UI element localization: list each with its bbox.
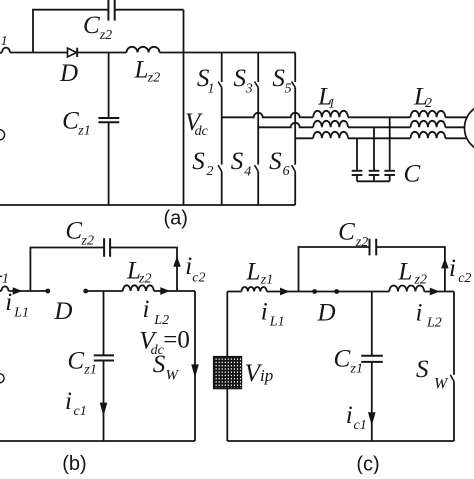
svg-text:z1: z1 — [260, 273, 273, 288]
svg-text:L2: L2 — [426, 316, 442, 331]
svg-text:(c): (c) — [356, 454, 379, 475]
svg-text:z1: z1 — [83, 362, 96, 377]
svg-text:z2: z2 — [81, 234, 94, 249]
svg-text:i: i — [185, 253, 192, 280]
svg-text:z2: z2 — [138, 272, 151, 287]
svg-text:L: L — [246, 259, 261, 286]
svg-text:C: C — [334, 346, 351, 373]
svg-text:S: S — [416, 356, 429, 383]
svg-text:S: S — [153, 351, 166, 378]
svg-text:D: D — [59, 60, 78, 87]
svg-text:S: S — [234, 65, 247, 92]
svg-text:1: 1 — [1, 34, 8, 49]
svg-text:S: S — [269, 148, 282, 175]
svg-text:D: D — [53, 298, 72, 325]
svg-text:5: 5 — [285, 81, 292, 96]
svg-text:i: i — [449, 255, 456, 282]
svg-text:L: L — [134, 57, 149, 84]
svg-text:c2: c2 — [458, 271, 471, 286]
svg-text:4: 4 — [244, 164, 251, 179]
svg-text:L: L — [397, 259, 412, 286]
svg-text:2: 2 — [425, 96, 432, 111]
svg-text:ip: ip — [260, 366, 273, 385]
svg-text:C: C — [67, 347, 84, 374]
svg-text:c1: c1 — [74, 404, 87, 419]
svg-text:=0: =0 — [163, 326, 190, 353]
svg-text:i: i — [416, 300, 423, 327]
svg-text:L1: L1 — [13, 306, 29, 321]
svg-text:dc: dc — [195, 124, 209, 139]
svg-text:z2: z2 — [99, 28, 112, 43]
svg-text:L1: L1 — [269, 315, 285, 330]
svg-text:C: C — [83, 12, 100, 39]
svg-text:i: i — [5, 289, 12, 316]
svg-text:2: 2 — [207, 164, 214, 179]
svg-text:z2: z2 — [355, 235, 368, 250]
svg-text:6: 6 — [283, 164, 290, 179]
svg-text:S: S — [192, 148, 205, 175]
svg-text:C: C — [404, 160, 421, 187]
svg-text:z2: z2 — [414, 273, 427, 288]
svg-text:C: C — [65, 218, 82, 245]
svg-text:W: W — [166, 368, 180, 384]
svg-text:c1: c1 — [354, 418, 367, 433]
svg-text:(a): (a) — [164, 208, 188, 230]
svg-text:W: W — [434, 376, 449, 393]
svg-text:c2: c2 — [192, 271, 205, 286]
svg-text:z1: z1 — [350, 362, 363, 377]
svg-text:i: i — [261, 299, 268, 326]
svg-text:1: 1 — [2, 271, 9, 286]
svg-text:D: D — [317, 300, 336, 327]
svg-text:C: C — [338, 219, 355, 246]
svg-text:i: i — [65, 388, 72, 415]
svg-text:S: S — [272, 65, 285, 92]
svg-text:S: S — [231, 148, 244, 175]
svg-text:z1: z1 — [77, 123, 90, 138]
svg-text:C: C — [62, 107, 79, 134]
svg-text:1: 1 — [328, 96, 335, 111]
svg-text:1: 1 — [208, 81, 215, 96]
svg-text:z2: z2 — [147, 71, 160, 86]
svg-text:3: 3 — [245, 81, 253, 96]
svg-text:i: i — [143, 296, 150, 323]
svg-text:i: i — [346, 402, 353, 429]
svg-text:(b): (b) — [62, 453, 86, 474]
